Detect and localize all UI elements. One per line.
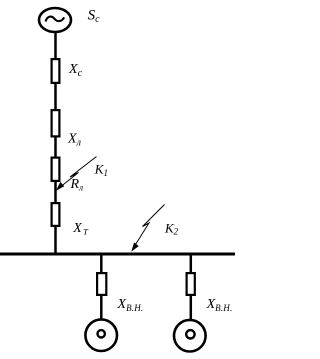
wire: source to X_c (54, 32, 57, 59)
reactor X_vn box right (187, 273, 195, 295)
wire: R_l to X_t (54, 181, 57, 203)
svg-text:XB.H.: XB.H. (117, 297, 144, 313)
reactor X_t box (52, 203, 60, 226)
fault arrow K1 (lightning) (56, 157, 97, 191)
svg-text:XB.H.: XB.H. (206, 297, 233, 313)
motor M1 (left machine) (85, 319, 117, 351)
wire: X_vn to motor left (100, 294, 103, 320)
wire: busbar to X_vn left (100, 254, 103, 273)
resistor R_l box (52, 158, 60, 181)
svg-text:K1: K1 (94, 162, 108, 178)
busbar (0, 253, 235, 256)
motor M2 (right machine) (174, 320, 206, 352)
reactor X_l box (52, 110, 60, 136)
wire: X_c to X_l (54, 83, 57, 110)
svg-text:XT: XT (72, 221, 89, 237)
wire: X_t to busbar (54, 226, 57, 255)
reactor X_c box (52, 59, 60, 83)
fault arrow K2 (lightning) (131, 205, 164, 252)
wire: X_vn to motor right (190, 294, 193, 321)
svg-text:K2: K2 (164, 221, 179, 237)
svg-text:Xл: Xл (67, 132, 82, 149)
svg-text:Rл: Rл (70, 177, 84, 193)
wire: busbar to X_vn right (190, 254, 193, 273)
source S_c (system generator symbol) (39, 8, 71, 32)
svg-text:Xc: Xc (68, 62, 83, 79)
svg-text:Sc: Sc (88, 8, 101, 25)
reactor X_vn box left (97, 273, 106, 295)
wire: X_l to R_l (54, 137, 57, 159)
